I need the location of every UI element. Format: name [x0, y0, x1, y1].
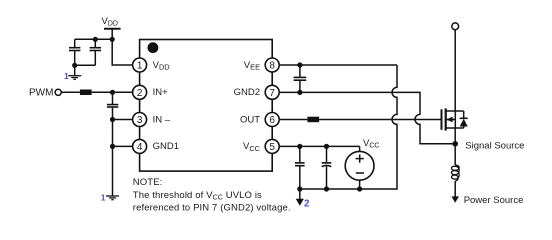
pin 6 [265, 113, 279, 127]
svg-text:PWM: PWM [29, 88, 53, 99]
note text [133, 177, 291, 214]
wire down to GND1 row [112, 120, 114, 147]
svg-text:1: 1 [137, 61, 143, 72]
svg-text:2: 2 [137, 88, 143, 99]
terminal 2 arrow [297, 189, 303, 205]
terminal drain top [452, 23, 459, 30]
capacitor C4 (VEE-GND2) [294, 65, 307, 92]
wire gate resistor to MOSFET gate [319, 119, 441, 121]
svg-text:referenced to PIN 7 (GND2) vol: referenced to PIN 7 (GND2) voltage. [133, 203, 291, 214]
pin 1 indicator dot [148, 42, 159, 53]
IC U1 body [140, 40, 273, 172]
ground 1a [68, 65, 81, 79]
svg-text:VDD: VDD [153, 60, 170, 72]
svg-text:1: 1 [101, 192, 106, 202]
pin 2 [133, 85, 147, 99]
terminal PWM input [55, 89, 61, 95]
junction VEE cap top [297, 62, 302, 67]
svg-text:8: 8 [269, 61, 275, 72]
svg-text:NOTE:: NOTE: [133, 177, 163, 188]
svg-text:VEE: VEE [244, 60, 260, 72]
svg-text:IN+: IN+ [153, 87, 169, 98]
ground 1b [106, 196, 119, 200]
supply rail VDD bar [104, 28, 121, 30]
junction cap bottom [72, 63, 77, 68]
svg-text:4: 4 [137, 142, 143, 153]
wire down to ground 1b [112, 146, 114, 195]
pin 3 [133, 113, 147, 127]
junction GND2 cap bottom [297, 90, 302, 95]
capacitor C5 [295, 146, 305, 189]
resistor R1 (input) [80, 90, 92, 96]
inductor L1 [451, 165, 459, 181]
wire pin 7 GND2 to right [279, 92, 455, 143]
svg-text:OUT: OUT [240, 114, 260, 125]
junction bottom rail dot 2 [324, 186, 329, 191]
capacitor C3 [107, 92, 118, 119]
pin 7 [265, 85, 279, 99]
svg-text:5: 5 [269, 142, 275, 153]
wire pin 6 OUT to gate resistor [280, 119, 307, 121]
pin 4 [133, 139, 147, 153]
wire VEE drop with hops [300, 65, 397, 189]
capacitor C6 [322, 146, 332, 189]
wire cap bottoms [75, 64, 96, 66]
junction bottom rail dot 1 / terminal 2 [297, 186, 302, 191]
resistor R2 (gate) [307, 117, 319, 123]
svg-text:IN –: IN – [153, 114, 171, 125]
junction IN+ node [110, 90, 115, 95]
junction VDD tee [110, 37, 115, 42]
junction cap C2 top [93, 37, 98, 42]
pin 8 [265, 58, 279, 72]
wire source to junction [454, 128, 456, 144]
junction VCC rail dot 1 [297, 144, 302, 149]
svg-text:Signal Source: Signal Source [465, 140, 524, 151]
wire PWM to resistor [61, 91, 80, 93]
svg-text:3: 3 [137, 115, 143, 126]
wire junction to inductor [454, 144, 456, 165]
svg-text:Power Source: Power Source [464, 195, 524, 206]
svg-text:6: 6 [269, 115, 275, 126]
junction VCC rail dot 2 [324, 144, 329, 149]
svg-text:VCC: VCC [243, 141, 261, 153]
junction GND1 node [110, 144, 115, 149]
svg-text:7: 7 [269, 88, 275, 99]
pin 5 [265, 139, 279, 153]
wire pin 5 VCC rail [279, 145, 359, 147]
pin numbers [137, 61, 276, 153]
svg-text:VCC: VCC [363, 138, 379, 150]
wire pin 8 to VEE drop [279, 64, 397, 66]
diode D1 body diode [460, 111, 468, 128]
pin circles [133, 58, 280, 153]
svg-text:2: 2 [304, 199, 310, 210]
power source arrow [452, 197, 458, 202]
junction IN- node [110, 117, 115, 122]
junction signal source node [452, 141, 458, 147]
capacitor C2 [90, 39, 101, 65]
voltage source VCC [345, 146, 374, 189]
transistor Q1 MOSFET [442, 108, 464, 130]
svg-text:GND1: GND1 [153, 141, 179, 152]
wire VDD to bypass caps [75, 38, 113, 40]
wire to pin 3 [113, 119, 133, 121]
pin 1 [133, 58, 147, 72]
capacitor C1 [69, 39, 80, 65]
wire VDD vertical to pin 1 [112, 29, 132, 65]
junction VCC source bottom [357, 186, 362, 191]
svg-text:VDD: VDD [102, 16, 118, 28]
svg-text:The threshold of VCC UVLO is: The threshold of VCC UVLO is [133, 190, 262, 202]
svg-text:GND2: GND2 [234, 87, 260, 98]
wire inductor to power source arrow [454, 181, 456, 197]
wire drain lead [454, 30, 456, 111]
svg-text:1: 1 [64, 71, 69, 81]
wire to pin 4 [113, 145, 133, 147]
wire resistor to pin 2 [92, 91, 133, 93]
